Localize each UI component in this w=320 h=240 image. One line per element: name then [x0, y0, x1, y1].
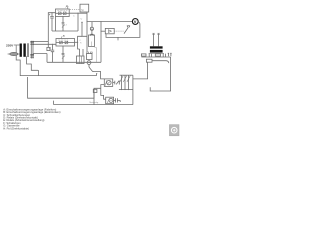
wire lamp chain left	[101, 85, 106, 100]
wire left bus stage A	[48, 13, 55, 45]
box U2 stage B	[56, 39, 75, 47]
wire bank bottom bus	[119, 89, 133, 91]
transformer secondary ladder	[30, 41, 34, 59]
svg-text:Netzanlg.: Netzanlg.	[90, 101, 100, 104]
wire bottom run	[54, 101, 133, 105]
capacitor C1	[49, 13, 54, 31]
wire box St down and top rail	[87, 12, 132, 22]
svg-text:C: C	[73, 16, 75, 18]
switch S1 blade	[89, 65, 93, 73]
svg-text:St: St	[81, 9, 84, 12]
transformer core lines	[27, 43, 28, 57]
wire secondary lower stair	[27, 56, 39, 75]
relay K3 core bars	[149, 46, 164, 53]
dashed link A-St	[70, 9, 80, 11]
wire secondary bottom tap	[33, 54, 47, 63]
capacitor after L2	[114, 98, 121, 102]
wire stage B bottom	[47, 61, 101, 63]
box U1 stage A	[56, 9, 70, 17]
dashed link coil-switch	[114, 30, 123, 32]
relay contact row	[141, 53, 171, 57]
terminal stub	[117, 37, 120, 40]
wire coil stub	[100, 31, 105, 32]
plug P1	[8, 45, 20, 56]
zener D2 stage A	[62, 17, 68, 32]
wire relay right drop	[150, 57, 170, 91]
label bottom wire	[90, 101, 100, 104]
switch S3	[124, 26, 130, 34]
relay K3 leads	[152, 33, 160, 46]
lamp L1	[104, 79, 112, 87]
svg-text:H: Pol (Drehkontakte): H: Pol (Drehkontakte)	[3, 126, 29, 130]
wire feedback branch	[81, 22, 87, 37]
electromagnet K1	[77, 42, 85, 63]
label A	[65, 5, 69, 9]
wire to lamp unit 1	[93, 72, 105, 79]
legend text	[3, 107, 60, 130]
node rail junctions	[86, 21, 101, 22]
wire right bus lower	[132, 75, 134, 104]
lamp L2	[106, 97, 114, 104]
svg-text:R: R	[80, 43, 82, 45]
wire right bus	[100, 22, 102, 63]
wire mains stair to long run	[16, 55, 96, 75]
solenoid R vertical	[89, 30, 97, 62]
svg-text:F: F	[83, 59, 85, 61]
wire stage A bottom	[52, 17, 78, 32]
label C4	[80, 40, 83, 44]
contact bank S2	[120, 75, 133, 90]
voltmeter V	[132, 19, 138, 25]
svg-text:U: U	[81, 19, 83, 21]
wire branch to bottom	[94, 88, 101, 104]
label F	[83, 59, 85, 61]
label U	[81, 19, 83, 21]
wire down to tube	[86, 22, 88, 52]
contact after L1	[113, 81, 120, 85]
diode D1 branch	[62, 46, 65, 62]
enclosure box	[28, 77, 97, 98]
node cap branch junction	[51, 12, 52, 13]
node bus junctions	[48, 44, 53, 45]
zoom icon logo	[169, 125, 179, 136]
wire stage B output	[75, 36, 83, 43]
transformer T1 coil bars	[20, 44, 26, 57]
wire stage A output	[69, 13, 87, 31]
label C2	[73, 16, 75, 18]
svg-text:V: V	[134, 19, 137, 24]
wire bank to relay	[133, 62, 148, 79]
connector hook	[96, 73, 99, 75]
relay contact row 2	[146, 59, 168, 63]
label B	[62, 34, 65, 39]
lamp glim branch	[90, 22, 93, 31]
wire transformer tap to stage B	[33, 43, 56, 45]
svg-text:B: B	[63, 34, 65, 38]
wire meter loop	[106, 22, 140, 38]
label 220V	[6, 43, 14, 47]
svg-text:Z: Z	[66, 24, 68, 26]
relay coil K2	[105, 28, 114, 33]
tube F sensor	[87, 52, 93, 65]
capacitor C3	[49, 44, 54, 62]
node box1 bottom	[62, 16, 63, 17]
wire transformer top feed	[34, 40, 49, 42]
box St timer	[80, 4, 89, 12]
fuse F1	[47, 44, 50, 50]
svg-text:220V: 220V	[6, 43, 14, 47]
